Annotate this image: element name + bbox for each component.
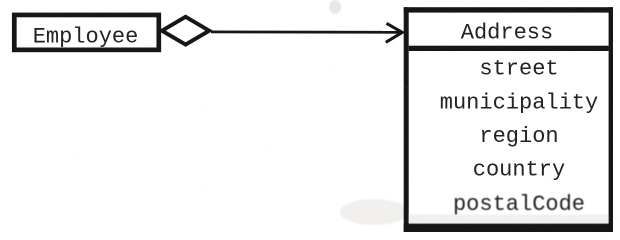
scan smudge left of Address box [340,199,408,225]
scan fade band over postalCode descenders [409,215,608,224]
arrowhead [386,23,402,42]
scan smudge inside Address box bottom [409,213,608,223]
scan smudge above line [329,0,341,14]
right border [609,7,613,232]
class box Employee [14,15,159,50]
aggregation diamond [162,17,209,45]
class box Address [404,7,613,232]
header separator [409,46,609,51]
bottom border [404,224,613,233]
association line [211,30,399,33]
top border [404,7,613,12]
left border [404,7,409,232]
